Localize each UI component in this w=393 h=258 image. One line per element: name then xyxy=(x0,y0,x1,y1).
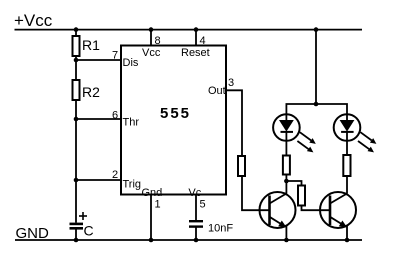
wire Q2 emitter to GND rail xyxy=(346,226,348,240)
node: LED feed split xyxy=(314,102,319,107)
wire pin 6 Thr xyxy=(76,118,121,120)
node: rail / R1 xyxy=(74,27,79,32)
svg-text:Trig: Trig xyxy=(123,178,142,190)
node: rail / LED feed xyxy=(314,27,319,32)
svg-text:1: 1 xyxy=(155,199,161,211)
svg-text:GND: GND xyxy=(16,225,50,242)
wire pin 2 Trig xyxy=(76,179,121,181)
svg-text:6: 6 xyxy=(112,110,118,122)
node: GND / pin 1 xyxy=(149,238,154,243)
wire capacitor 10nF to GND rail xyxy=(195,228,197,241)
IC U1 555 body xyxy=(121,46,226,195)
svg-text:5: 5 xyxy=(200,199,206,211)
resistor R1 xyxy=(73,36,80,56)
svg-text:4: 4 xyxy=(200,35,206,47)
wire base resistor to Q1 base xyxy=(242,176,270,210)
wire R3 to Q1 collector xyxy=(285,174,287,194)
resistor R6 (Q2 base drive) xyxy=(298,186,305,206)
node: R1/R2/Dis xyxy=(74,58,79,63)
wire R1 bottom to R2 top xyxy=(75,56,77,80)
node: GND / 10nF xyxy=(194,238,199,243)
wire pin 3 Out to base resistor xyxy=(226,90,242,156)
wire R5 to Q2 base xyxy=(302,206,331,211)
svg-text:+Vcc: +Vcc xyxy=(14,11,53,30)
node A: Q1 collector / R6 xyxy=(284,179,289,184)
transistor Q1 xyxy=(260,192,296,228)
wire R4 to Q2 collector xyxy=(346,175,348,194)
resistor R2 xyxy=(73,80,80,100)
GND rail xyxy=(15,239,362,241)
svg-text:Vc: Vc xyxy=(188,187,201,199)
wire pin 8 stub xyxy=(150,30,152,46)
wire pin 7 Dis xyxy=(76,59,121,61)
svg-text:R2: R2 xyxy=(82,84,100,100)
wire node A to resistor R5 xyxy=(286,181,301,186)
wire LED feed to LED anodes xyxy=(286,104,347,115)
transistor Q2 xyxy=(320,192,356,228)
node: rail / pin 4 xyxy=(194,27,199,32)
svg-text:8: 8 xyxy=(155,35,161,47)
wire Q1 emitter to GND rail xyxy=(285,226,287,240)
svg-text:10nF: 10nF xyxy=(208,223,233,235)
capacitor 10nF xyxy=(189,220,203,228)
svg-text:C: C xyxy=(84,222,94,238)
svg-text:555: 555 xyxy=(160,105,191,122)
svg-text:Gnd: Gnd xyxy=(142,187,163,199)
svg-text:Dis: Dis xyxy=(123,57,139,69)
node: R2/Thr xyxy=(74,117,79,122)
svg-text:Out: Out xyxy=(208,85,226,97)
svg-text:7: 7 xyxy=(112,50,118,62)
pin labels xyxy=(112,35,234,211)
node: GND / Q1 emitter xyxy=(284,238,289,243)
wire pin 1 stub to GND xyxy=(150,195,152,241)
svg-text:Vcc: Vcc xyxy=(142,47,161,59)
LED D1 xyxy=(273,114,316,152)
svg-text:Reset: Reset xyxy=(181,47,210,59)
resistor R5 (Q1 base drive) xyxy=(238,156,245,176)
wire pin 5 stub to capacitor 10nF xyxy=(195,195,197,221)
capacitor C (polarized) xyxy=(70,212,88,230)
svg-text:2: 2 xyxy=(112,169,118,181)
svg-text:3: 3 xyxy=(228,77,234,89)
wire pin 4 stub xyxy=(195,30,197,46)
svg-text:R1: R1 xyxy=(82,37,100,53)
wire R2 bottom to capacitor C xyxy=(75,100,77,223)
resistor R3 (LED1 series) xyxy=(283,156,290,175)
svg-text:Thr: Thr xyxy=(123,117,140,129)
resistor R4 (LED2 series) xyxy=(343,155,350,176)
LED D2 xyxy=(334,114,377,152)
+Vcc rail xyxy=(15,29,363,31)
wire LED2 cathode to resistor R4 xyxy=(346,141,348,155)
node: Trig/C xyxy=(74,178,79,183)
wire left bus R1 top stub xyxy=(75,30,77,36)
wire Vcc rail drop to LED feed node xyxy=(315,30,317,104)
node: GND / Q2 emitter xyxy=(345,238,350,243)
node: GND / C xyxy=(74,238,79,243)
wire LED1 cathode to resistor R3 xyxy=(285,141,287,156)
node: rail / pin 8 xyxy=(149,27,154,32)
wire capacitor C to GND rail xyxy=(75,228,77,240)
